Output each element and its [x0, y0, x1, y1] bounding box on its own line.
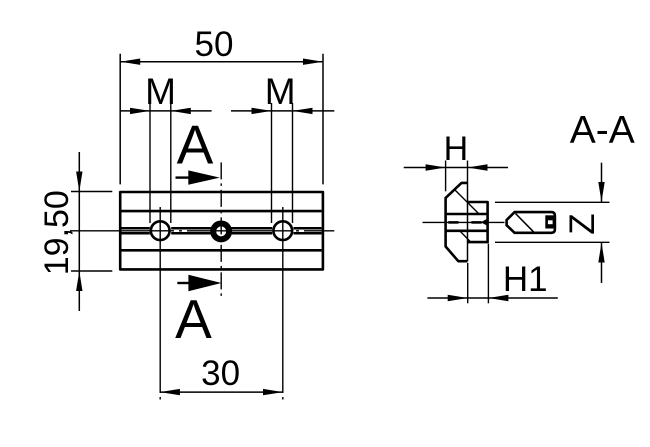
set screw facet line: [516, 214, 534, 232]
svg-text:H1: H1: [503, 260, 548, 299]
dimension Z line top: [601, 163, 603, 202]
thread hole upper line: [446, 213, 488, 216]
part outline rectangle: [120, 192, 323, 269]
dimension Z line bottom: [601, 243, 603, 283]
left hole centerline vertical: [159, 207, 161, 402]
svg-text:19,50: 19,50: [38, 190, 76, 275]
dimension H1 arrow right: [488, 295, 508, 301]
boss outline: [468, 202, 488, 242]
thread dash right: [471, 221, 481, 224]
hatch line upper: [455, 190, 480, 215]
dimension 50 extension line right: [322, 54, 324, 185]
horizontal centerline: [70, 230, 334, 232]
svg-text:A-A: A-A: [570, 109, 635, 152]
dimension H line: [404, 167, 508, 169]
svg-text:Z: Z: [563, 213, 602, 234]
slot edge line upper: [121, 210, 321, 213]
svg-text:H: H: [444, 130, 469, 168]
M extension line left b: [170, 103, 172, 223]
nut body outline: [446, 183, 468, 261]
dimension 30 line: [160, 391, 283, 393]
slot edge line lower: [121, 249, 321, 252]
dimension 19,50 extension bottom: [71, 270, 112, 272]
section cut line A-A vertical: [220, 162, 222, 299]
nut body step edge: [467, 183, 469, 261]
hatch line lower: [460, 231, 470, 241]
dimension 19,50 line: [78, 152, 80, 311]
center groove upper line: [121, 227, 321, 230]
set screw socket slot: [548, 220, 553, 224]
dimension Z arrow bottom: [598, 243, 604, 263]
dimension M left arrow a: [130, 108, 150, 114]
section arrow top: [176, 176, 191, 178]
dimension 50 arrow right: [303, 59, 323, 65]
M extension line right b: [292, 103, 294, 223]
dimension H1 extension left: [467, 263, 469, 303]
section arrow bottom: [177, 282, 190, 284]
dimension Z arrow top: [598, 182, 604, 202]
M extension line right a: [271, 103, 273, 223]
dimension H extension left: [445, 161, 447, 192]
thread dash left: [448, 221, 458, 224]
svg-text:A: A: [175, 288, 212, 350]
thread hole lower line: [446, 230, 488, 233]
dimension H extension right: [467, 161, 469, 184]
dimension Z extension top: [495, 201, 610, 203]
right hole centerline vertical: [282, 207, 284, 402]
dimension 19,50 arrow top: [76, 172, 82, 192]
dimension 30 arrow right: [263, 389, 283, 395]
dimension H1 extension right: [487, 244, 489, 304]
dimension 50 extension line left: [119, 54, 121, 185]
svg-text:50: 50: [195, 25, 234, 64]
svg-text:M: M: [265, 71, 296, 112]
left hole circle: [151, 221, 170, 240]
dimension M left arrow b: [171, 108, 191, 114]
dimension 50 line: [120, 61, 323, 63]
dimension M left line: [120, 110, 211, 112]
thread point notch: [481, 218, 488, 226]
dimension 30 arrow left: [160, 389, 180, 395]
M extension line left a: [149, 103, 151, 223]
svg-text:A: A: [177, 114, 214, 176]
dimension 19,50 arrow bottom: [76, 271, 82, 291]
dimension 50 arrow left: [120, 59, 140, 65]
dimension M right arrow b: [293, 108, 313, 114]
center groove lower line: [121, 232, 321, 235]
dimension H arrow right: [468, 164, 488, 170]
right hole circle: [273, 221, 292, 240]
dimension H arrow left: [426, 164, 446, 170]
set screw outline: [507, 212, 555, 233]
hole axis centerline: [423, 221, 505, 223]
dimension H1 line: [427, 297, 557, 299]
dimension M right arrow a: [252, 108, 272, 114]
center hole filled annulus: [210, 220, 232, 242]
svg-text:30: 30: [201, 354, 240, 393]
set screw socket block: [545, 215, 554, 228]
dimension M right line: [231, 110, 334, 112]
dimension H1 arrow left: [448, 295, 468, 301]
dimension Z extension bottom: [495, 241, 610, 243]
dimension 19,50 extension top: [71, 191, 112, 193]
